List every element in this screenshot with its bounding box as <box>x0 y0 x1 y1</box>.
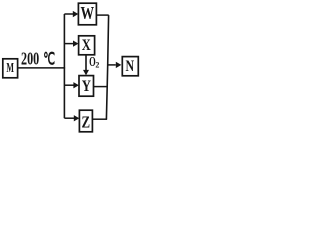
svg-text:2: 2 <box>95 61 99 70</box>
box W <box>78 3 96 25</box>
svg-text:W: W <box>81 3 95 23</box>
arrowhead into X <box>73 41 79 47</box>
svg-text:N: N <box>126 58 135 75</box>
svg-text:M: M <box>6 61 14 76</box>
box X <box>79 36 95 55</box>
wire Z out right <box>92 118 107 120</box>
arrowhead into Z <box>74 115 80 121</box>
box M <box>3 59 18 78</box>
wire branch to X <box>64 43 73 45</box>
svg-text:Z: Z <box>82 113 91 132</box>
arrowhead into N <box>116 62 122 68</box>
svg-text:℃: ℃ <box>43 50 55 69</box>
wire branch to W <box>64 13 73 15</box>
right bus wire <box>106 15 108 119</box>
wire W out right <box>96 14 108 16</box>
wire Y out right <box>94 86 108 88</box>
wire M to left bus <box>18 67 66 69</box>
box Y <box>79 76 94 97</box>
arrowhead down into Y <box>83 70 89 76</box>
box N <box>122 57 138 76</box>
wire bus to N <box>108 64 116 66</box>
wire branch to Z <box>64 117 74 119</box>
wire branch to Y <box>64 84 73 86</box>
svg-text:200: 200 <box>21 49 39 69</box>
svg-text:X: X <box>82 37 92 54</box>
wire X down to Y <box>85 55 87 71</box>
arrowhead into W <box>73 11 79 17</box>
svg-text:Y: Y <box>82 78 92 95</box>
left bus wire <box>63 14 65 118</box>
box Z <box>79 110 92 132</box>
arrowhead into Y <box>73 82 79 88</box>
